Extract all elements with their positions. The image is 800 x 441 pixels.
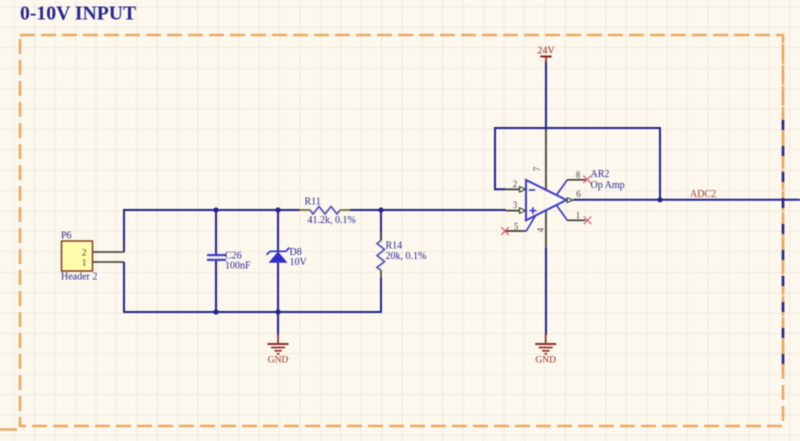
svg-text:20k, 0.1%: 20k, 0.1% [386, 251, 427, 262]
bottom-left extra dash [0, 428, 17, 431]
svg-text:3: 3 [513, 200, 518, 210]
wire vertical from pin2 up [123, 210, 125, 252]
junction dot D8 top [275, 207, 280, 212]
wire top rail left [123, 209, 300, 211]
svg-text:Header 2: Header 2 [61, 272, 97, 283]
output wire to ADC2 [574, 199, 800, 201]
feedback wire [495, 128, 660, 200]
pin 1 stub [567, 219, 585, 221]
right edge overlay solid orange [782, 44, 785, 372]
junction dot output/feedback [657, 197, 662, 202]
junction dot D8 bottom [275, 309, 280, 314]
svg-text:AR2: AR2 [591, 169, 610, 180]
right edge navy dashes [782, 120, 785, 372]
plus symbol [529, 207, 536, 214]
svg-text:GND: GND [268, 356, 289, 366]
pin 5 no-connect cross [501, 227, 509, 235]
connector P6 [62, 241, 93, 271]
ground symbol right [535, 334, 556, 354]
capacitor C26 [207, 210, 226, 312]
wire 24V down to op-amp pin 7 [545, 62, 547, 130]
junction dot R14 top [378, 207, 383, 212]
pin 3 input designator [520, 208, 526, 213]
pin 2 input designator [520, 187, 526, 192]
svg-text:10V: 10V [290, 257, 308, 268]
junction dot C26 bottom [213, 309, 218, 314]
pin 3 stub [506, 210, 520, 212]
svg-text:ADC2: ADC2 [690, 189, 716, 200]
op-amp AR2 triangle [526, 180, 567, 220]
svg-text:8: 8 [576, 170, 581, 180]
zener diode D8 [267, 210, 290, 312]
svg-text:2: 2 [513, 179, 518, 189]
svg-text:GND: GND [535, 356, 556, 366]
ground symbol left [268, 312, 289, 354]
svg-text:41.2k, 0.1%: 41.2k, 0.1% [308, 215, 356, 226]
svg-text:6: 6 [576, 189, 581, 199]
svg-text:5: 5 [514, 222, 519, 232]
pin 1 diagonal [557, 205, 568, 220]
svg-text:1: 1 [82, 257, 87, 268]
svg-text:0-10V INPUT: 0-10V INPUT [20, 3, 136, 25]
pin 8 no-connect cross [583, 176, 591, 184]
svg-text:100nF: 100nF [225, 261, 251, 272]
op-amp pin 7 [545, 129, 547, 190]
svg-text:4: 4 [536, 227, 546, 232]
svg-text:R11: R11 [305, 197, 321, 208]
svg-text:7: 7 [532, 166, 542, 171]
pin 8 diagonal [557, 180, 568, 195]
pin 8 stub [567, 179, 585, 181]
wire top rail right of R11 [350, 209, 506, 211]
wire vertical from pin1 down [123, 262, 125, 312]
pin 1 no-connect cross [584, 217, 592, 225]
24V power symbol [537, 46, 555, 64]
pin 5 diagonal [526, 216, 535, 231]
pin 6 output designator [567, 198, 573, 203]
pin 2 stub [506, 188, 520, 190]
pin 2 stub of P6 [93, 251, 124, 253]
minus symbol [529, 189, 535, 191]
wire bottom rail [123, 311, 382, 313]
svg-text:Op Amp: Op Amp [591, 180, 625, 191]
resistor R14 [377, 210, 385, 312]
svg-text:24V: 24V [537, 46, 555, 57]
wire op-amp pin 4 down to ground [545, 248, 547, 335]
junction dot C26 top [213, 207, 218, 212]
pin 1 stub of P6 [93, 261, 124, 263]
svg-text:P6: P6 [61, 231, 72, 242]
svg-text:1: 1 [576, 210, 581, 220]
op-amp pin 4 [545, 210, 547, 249]
pin 5 stub [505, 230, 526, 232]
resistor R11 [300, 207, 351, 215]
